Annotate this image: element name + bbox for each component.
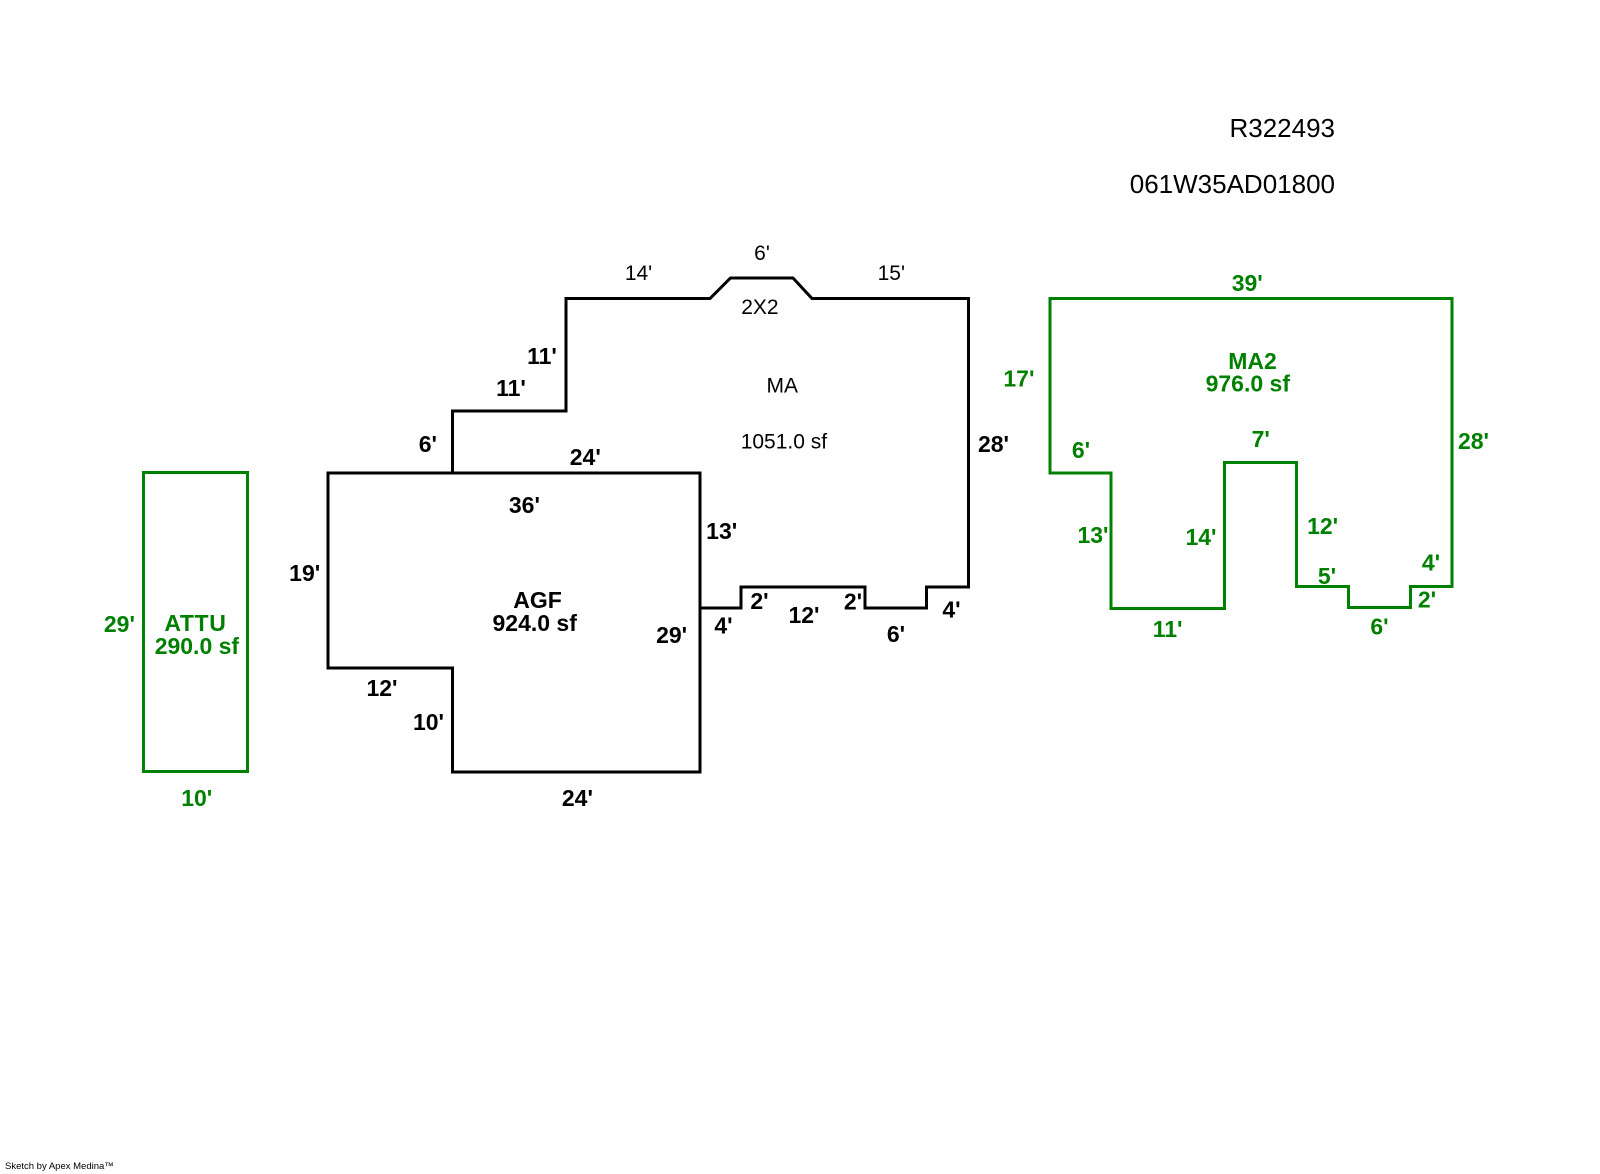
svg-text:14': 14' xyxy=(1185,524,1216,550)
svg-text:12': 12' xyxy=(366,675,397,701)
svg-text:13': 13' xyxy=(706,518,737,544)
svg-text:6': 6' xyxy=(419,431,437,457)
svg-text:976.0 sf: 976.0 sf xyxy=(1206,371,1291,397)
svg-text:39': 39' xyxy=(1232,270,1263,296)
svg-text:2': 2' xyxy=(1418,587,1436,613)
svg-text:6': 6' xyxy=(754,242,770,265)
svg-text:11': 11' xyxy=(496,375,526,401)
svg-text:MA: MA xyxy=(767,374,799,397)
svg-text:6': 6' xyxy=(887,621,905,647)
svg-text:924.0 sf: 924.0 sf xyxy=(492,610,577,636)
svg-text:6': 6' xyxy=(1072,437,1090,463)
svg-text:7': 7' xyxy=(1252,426,1270,452)
svg-text:11': 11' xyxy=(527,343,557,369)
svg-text:4': 4' xyxy=(714,613,732,639)
svg-text:14': 14' xyxy=(625,262,652,285)
svg-text:10': 10' xyxy=(181,785,212,811)
svg-text:28': 28' xyxy=(978,431,1009,457)
svg-text:6': 6' xyxy=(1370,613,1388,639)
svg-text:24': 24' xyxy=(562,785,593,811)
svg-text:36': 36' xyxy=(509,492,540,518)
svg-text:13': 13' xyxy=(1077,522,1108,548)
svg-text:5': 5' xyxy=(1318,563,1336,589)
svg-text:R322493: R322493 xyxy=(1229,113,1335,143)
svg-text:29': 29' xyxy=(656,622,687,648)
svg-text:28': 28' xyxy=(1458,428,1489,454)
svg-text:29': 29' xyxy=(104,611,135,637)
svg-text:290.0 sf: 290.0 sf xyxy=(155,633,240,659)
svg-text:11': 11' xyxy=(1153,616,1183,642)
svg-text:17': 17' xyxy=(1003,365,1034,391)
svg-text:AGF: AGF xyxy=(513,587,562,613)
svg-text:4': 4' xyxy=(1422,550,1440,576)
svg-text:15': 15' xyxy=(878,262,905,285)
svg-text:19': 19' xyxy=(289,560,320,586)
svg-text:2X2: 2X2 xyxy=(741,296,778,319)
svg-text:Sketch by Apex Medina™: Sketch by Apex Medina™ xyxy=(5,1161,114,1172)
svg-text:1051.0 sf: 1051.0 sf xyxy=(741,430,828,453)
svg-text:24': 24' xyxy=(570,444,601,470)
svg-text:4': 4' xyxy=(942,597,960,623)
svg-text:12': 12' xyxy=(788,602,819,628)
svg-text:12': 12' xyxy=(1307,513,1338,539)
svg-text:10': 10' xyxy=(413,709,444,735)
svg-text:061W35AD01800: 061W35AD01800 xyxy=(1130,169,1335,199)
svg-text:2': 2' xyxy=(750,588,768,614)
svg-text:2': 2' xyxy=(844,589,862,615)
